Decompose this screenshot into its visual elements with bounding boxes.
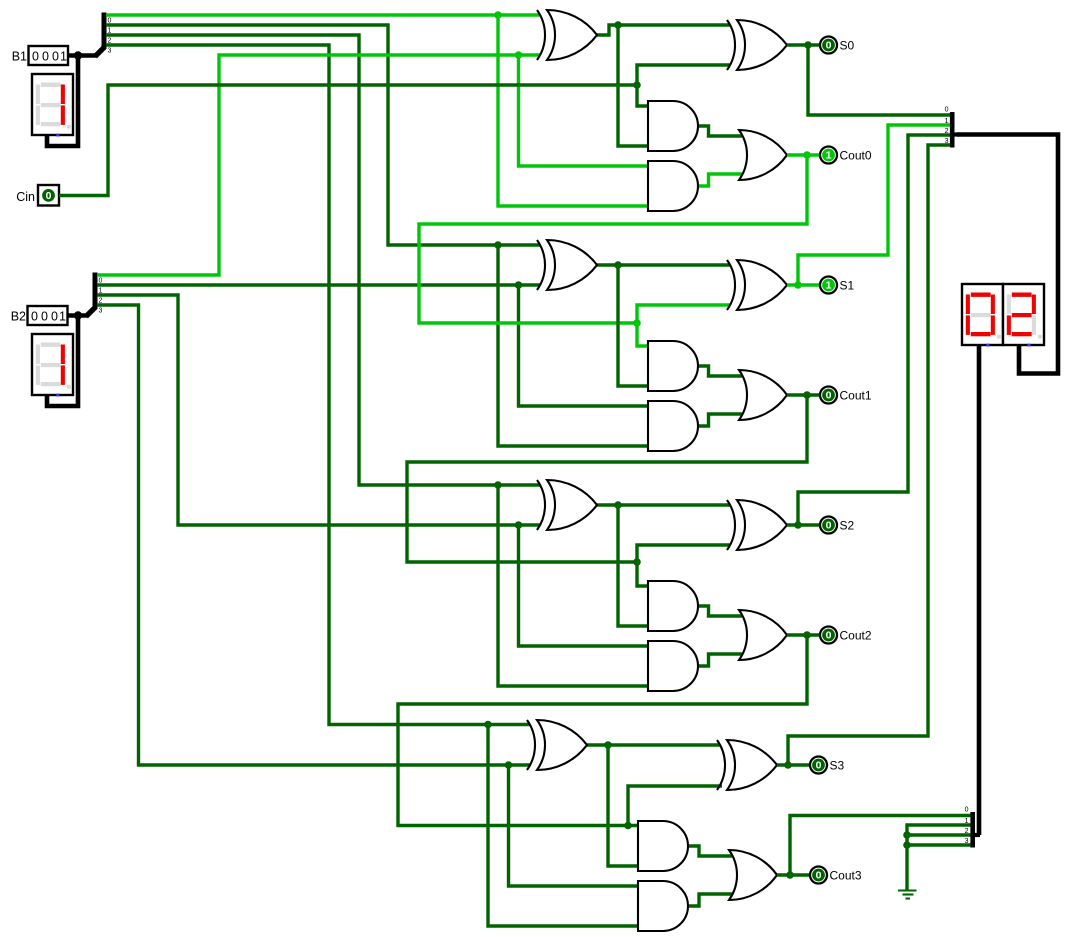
wire AND U4 output (high)	[698, 174, 742, 186]
output pin Cout0 (1)	[820, 147, 872, 164]
xor-gate U6 (A1,B1)	[537, 240, 597, 290]
xor-gate U17 (sum S3)	[717, 740, 777, 790]
and-gate U13 ((A2^B2)&C2)	[648, 581, 698, 631]
svg-text:0: 0	[816, 760, 822, 772]
svg-text:3: 3	[99, 308, 103, 315]
wire AND U3 output	[698, 126, 742, 136]
wire net B1b = B2 bit1	[97, 281, 648, 406]
svg-text:Cout2: Cout2	[840, 629, 872, 643]
svg-text:0: 0	[41, 309, 48, 323]
or-gate U15 (carry out 2)	[739, 610, 787, 660]
splitter SP3 (sum bits to bus)	[945, 107, 959, 148]
output pin S1 (1)	[820, 277, 855, 294]
7-seg hex display D2 (shows 1)	[32, 334, 73, 397]
wire XOR U11 output (A2^B2)	[597, 501, 730, 626]
wire net Cout3	[777, 816, 971, 879]
xor-gate U12 (sum S2)	[727, 500, 787, 550]
wire AND U18 output	[688, 846, 732, 856]
wire XOR U16 output (A3^B3)	[587, 741, 720, 866]
splitter SP4 (carry/ground to high digit)	[965, 807, 980, 848]
wire net B2b = B2 bit2	[97, 295, 648, 646]
input pin B2 (4-bit, value 0001)	[11, 306, 68, 325]
wire net Cout2 / carry2	[398, 631, 820, 829]
svg-text:0: 0	[816, 870, 822, 882]
and-gate U19 (A3&B3)	[638, 881, 688, 931]
wire net A2 = B1 bit2	[106, 35, 648, 686]
wire net Cout0 / carry0 (high)	[419, 151, 820, 346]
wire net A1 = B1 bit1	[106, 25, 648, 446]
svg-text:1: 1	[945, 118, 949, 125]
svg-text:Cout0: Cout0	[840, 149, 872, 163]
wire net S1 (high)	[787, 125, 950, 289]
wire net S0	[787, 41, 950, 115]
svg-text:0: 0	[51, 309, 58, 323]
wire net B3b = B2 bit3	[97, 305, 638, 886]
svg-text:B2: B2	[11, 310, 26, 324]
and-gate U14 (A2&B2)	[648, 641, 698, 691]
svg-text:0: 0	[965, 807, 969, 814]
svg-text:2: 2	[945, 128, 949, 135]
xor-gate U16 (A3,B3)	[527, 720, 587, 770]
wire net A0 = B1 bit0 (high)	[106, 11, 648, 206]
svg-text:3: 3	[945, 138, 949, 145]
output pin S0 (0)	[820, 37, 855, 54]
output pin S3 (0)	[810, 757, 845, 774]
svg-text:0: 0	[945, 107, 949, 114]
svg-text:0: 0	[826, 630, 832, 642]
wire AND U13 output	[698, 606, 742, 616]
wire net A3 = B1 bit3	[106, 45, 638, 926]
and-gate U4 (A0&B0)	[648, 161, 698, 211]
input pin B1 (4-bit, value 0001)	[12, 46, 68, 65]
svg-text:S1: S1	[840, 279, 855, 293]
svg-text:0: 0	[31, 309, 38, 323]
svg-text:Cout1: Cout1	[840, 389, 872, 403]
svg-text:1: 1	[826, 150, 832, 162]
wire net Cout1 / carry1	[407, 391, 820, 586]
svg-text:0: 0	[826, 40, 832, 52]
wire sum display bus	[957, 135, 1058, 374]
svg-text:0: 0	[32, 49, 39, 63]
wire net S2	[787, 135, 950, 529]
wire AND U9 output	[698, 414, 742, 426]
svg-text:1: 1	[826, 280, 832, 292]
svg-text:0: 0	[52, 49, 59, 63]
wire net Cin	[59, 65, 730, 196]
wire AND U19 output	[688, 894, 732, 906]
and-gate U9 (A1&B1)	[648, 401, 698, 451]
svg-text:0: 0	[42, 49, 49, 63]
output pin Cout2 (0)	[820, 627, 872, 644]
7-seg hex display D3 (high digit, shows 0)	[962, 284, 1003, 347]
ground symbol GND	[898, 891, 917, 899]
or-gate U20 (carry out 3)	[729, 850, 777, 900]
splitter SP1 (B1 fan-out)	[95, 13, 112, 57]
or-gate U5 (carry out 0)	[739, 130, 787, 180]
and-gate U3 ((A0^B0)&Cin)	[648, 101, 698, 151]
splitter SP2 (B2 fan-out)	[86, 273, 103, 317]
input pin Cin (value 0)	[16, 185, 59, 206]
xor-gate U11 (A2,B2)	[537, 480, 597, 530]
output pin Cout3 (0)	[810, 867, 862, 884]
and-gate U8 ((A1^B1)&C1)	[648, 341, 698, 391]
wire AND U8 output	[698, 366, 742, 376]
xor-gate U2 (sum S0)	[727, 20, 787, 70]
wire AND U14 output	[698, 654, 742, 666]
xor-gate U7 (sum S1)	[727, 260, 787, 310]
wire XOR U1 output (A0^B0)	[597, 21, 730, 146]
wire net S3	[777, 145, 950, 769]
wire B1 output bus	[47, 51, 96, 146]
svg-text:S2: S2	[840, 519, 855, 533]
wire XOR U6 output (A1^B1)	[597, 261, 730, 386]
svg-text:0: 0	[826, 520, 832, 532]
svg-text:1: 1	[60, 49, 67, 63]
svg-text:1: 1	[59, 309, 66, 323]
wire high-nibble display bus	[977, 345, 982, 835]
output pin S2 (0)	[820, 517, 855, 534]
svg-text:B1: B1	[12, 50, 27, 64]
or-gate U10 (carry out 1)	[739, 370, 787, 420]
wire net B0 = B2 bit0 (high)	[97, 51, 648, 275]
svg-text:Cin: Cin	[16, 190, 35, 204]
svg-text:Cout3: Cout3	[830, 869, 862, 883]
output pin Cout1 (0)	[820, 387, 872, 404]
wire B2 output bus	[47, 311, 87, 406]
svg-text:3: 3	[108, 48, 112, 55]
7-seg hex display D4 (low digit, shows 2)	[1003, 284, 1044, 347]
7-seg hex display D1 (shows 1)	[32, 74, 73, 137]
and-gate U18 ((A3^B3)&C3)	[638, 821, 688, 871]
svg-text:0: 0	[826, 390, 832, 402]
svg-text:0: 0	[46, 190, 52, 202]
wire ground net (splitter bits 1-3)	[903, 825, 970, 890]
svg-text:S0: S0	[840, 39, 855, 53]
svg-text:S3: S3	[830, 759, 845, 773]
xor-gate U1 (A0,B0)	[537, 10, 597, 60]
